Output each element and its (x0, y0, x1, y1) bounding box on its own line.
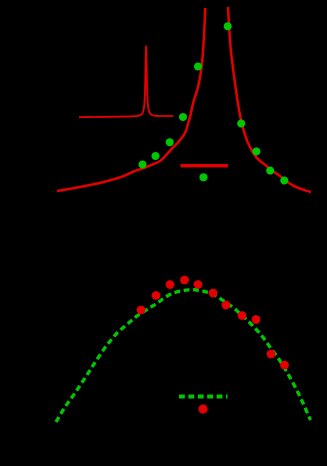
top panel data point G5 (green circle) (194, 62, 202, 70)
bottom panel fit curve (green dashed parabola) (56, 290, 311, 422)
bottom panel data point R5 (red circle) (194, 280, 203, 289)
bottom panel data point R1 (red circle) (137, 306, 146, 315)
bottom panel data point R3 (red circle) (166, 280, 175, 289)
inset: sharp resonance peak curve (red) (79, 46, 173, 118)
top panel legend: red solid line sample (181, 164, 229, 167)
bottom panel data point R2 (red circle) (152, 291, 161, 300)
top panel data point G9 (green circle) (266, 167, 274, 175)
bottom panel data point R4 (red circle) (180, 276, 189, 285)
bottom panel data point R11 (red circle) (280, 361, 289, 370)
bottom panel data point R7 (red circle) (222, 301, 231, 310)
top panel data point G2 (green circle) (151, 152, 159, 160)
bottom panel data point R6 (red circle) (209, 289, 218, 298)
top panel legend: green point sample (199, 173, 207, 181)
top panel data point G1 (green circle) (138, 160, 146, 168)
top panel data point G8 (green circle) (252, 147, 260, 155)
bottom panel data point R8 (red circle) (238, 311, 247, 320)
top panel curve, left branch (red solid) (57, 8, 205, 191)
top panel data point G4 (green circle) (179, 113, 187, 121)
bottom panel data point R9 (red circle) (252, 315, 261, 324)
top panel data point G7 (green circle) (237, 119, 245, 127)
top panel data point G3 (green circle) (166, 138, 174, 146)
top panel curve, right branch (red solid) (228, 7, 311, 192)
bottom panel data point R10 (red circle) (267, 350, 276, 359)
bottom panel legend: green dashed line sample (179, 395, 228, 399)
top panel data point G10 (green circle) (280, 176, 288, 184)
bottom panel legend: red point sample (198, 404, 207, 413)
top panel data point G6 (green circle) (224, 22, 232, 30)
